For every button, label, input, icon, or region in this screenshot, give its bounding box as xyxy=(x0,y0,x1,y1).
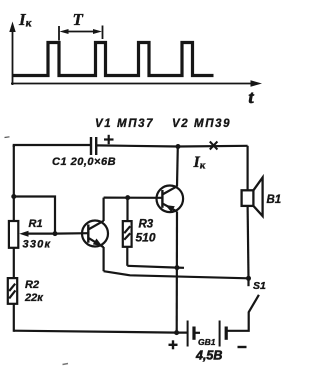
period marker T dimension xyxy=(59,26,103,41)
svg-text:R1: R1 xyxy=(29,218,43,230)
wire V1 emitter to S1 xyxy=(104,271,249,278)
svg-text:22к: 22к xyxy=(24,292,44,304)
svg-text:C1 20,0×6В: C1 20,0×6В xyxy=(52,156,116,168)
transistor V2 xyxy=(157,186,184,213)
wire bottom rail xyxy=(14,331,188,333)
node base junction xyxy=(53,231,58,236)
capacitor C1 xyxy=(91,137,96,155)
battery minus label xyxy=(238,346,247,348)
S1 fixed contact stub xyxy=(247,278,249,286)
stray mark xyxy=(5,136,10,139)
waveform t axis xyxy=(11,80,262,86)
node top junction V2 collector xyxy=(176,144,181,149)
waveform pulse train xyxy=(13,43,214,76)
C1 polarity + xyxy=(104,135,114,144)
wire left rail upper (corner to R1) xyxy=(13,145,15,221)
wire top left (left rail corner to C1) xyxy=(14,145,91,147)
node battery plus junction xyxy=(174,330,179,335)
svg-text:t: t xyxy=(249,87,255,107)
wire right rail upper (corner to speaker) xyxy=(247,146,249,191)
current break marker x xyxy=(210,142,218,150)
svg-text:Iк: Iк xyxy=(193,154,206,172)
resistor R2 xyxy=(8,278,17,304)
svg-text:4,5В: 4,5В xyxy=(195,349,222,363)
waveform Y axis xyxy=(9,22,15,86)
wire base (junction to V1 base) xyxy=(55,232,88,235)
svg-text:Т: Т xyxy=(73,10,84,29)
wire V1 emitter down xyxy=(102,247,104,271)
wire V2 emitter down to battery junction xyxy=(176,212,179,333)
svg-text:510: 510 xyxy=(136,231,156,245)
wire R3 bottom to V2 emitter junction xyxy=(127,266,184,268)
stray mark bottom xyxy=(63,364,69,365)
wire V2 collector up xyxy=(176,147,179,187)
svg-text:Iк: Iк xyxy=(18,10,33,30)
wire right rail lower (speaker to S1) xyxy=(247,206,250,278)
node R3 top xyxy=(125,195,130,200)
svg-text:R2: R2 xyxy=(25,279,39,291)
speaker B1 xyxy=(242,178,263,217)
svg-text:V2 МП39: V2 МП39 xyxy=(172,118,231,130)
node left rail branch xyxy=(11,194,16,199)
node V2 emitter junction xyxy=(175,265,180,270)
wire top right (junction to right rail corner) xyxy=(178,145,248,148)
node S1 top terminal xyxy=(246,276,251,281)
svg-text:В1: В1 xyxy=(267,194,282,206)
wire base branch (rail to wiper junction) xyxy=(14,197,55,234)
battery GB1 xyxy=(188,321,227,347)
svg-text:V1 МП37: V1 МП37 xyxy=(95,118,154,130)
wire V1 collector up xyxy=(102,198,104,221)
wire left rail between R1 and R2 xyxy=(13,248,15,278)
transistor V1 xyxy=(82,221,108,248)
wire top middle (C1 to junction) xyxy=(96,145,178,146)
svg-text:330к: 330к xyxy=(23,239,52,251)
svg-text:R3: R3 xyxy=(139,219,154,231)
resistor R1 (variable) xyxy=(9,221,18,248)
wire left rail lower (R2 to bottom corner) xyxy=(13,304,15,332)
battery plus label xyxy=(169,340,178,349)
switch S1 blade and wire to battery minus xyxy=(226,295,259,331)
svg-text:S1: S1 xyxy=(253,280,266,292)
resistor R3 xyxy=(123,198,132,266)
svg-text:GB1: GB1 xyxy=(198,337,216,347)
wire V1 collector to V2 base xyxy=(104,197,163,199)
R1 wiper arrow xyxy=(26,233,55,235)
